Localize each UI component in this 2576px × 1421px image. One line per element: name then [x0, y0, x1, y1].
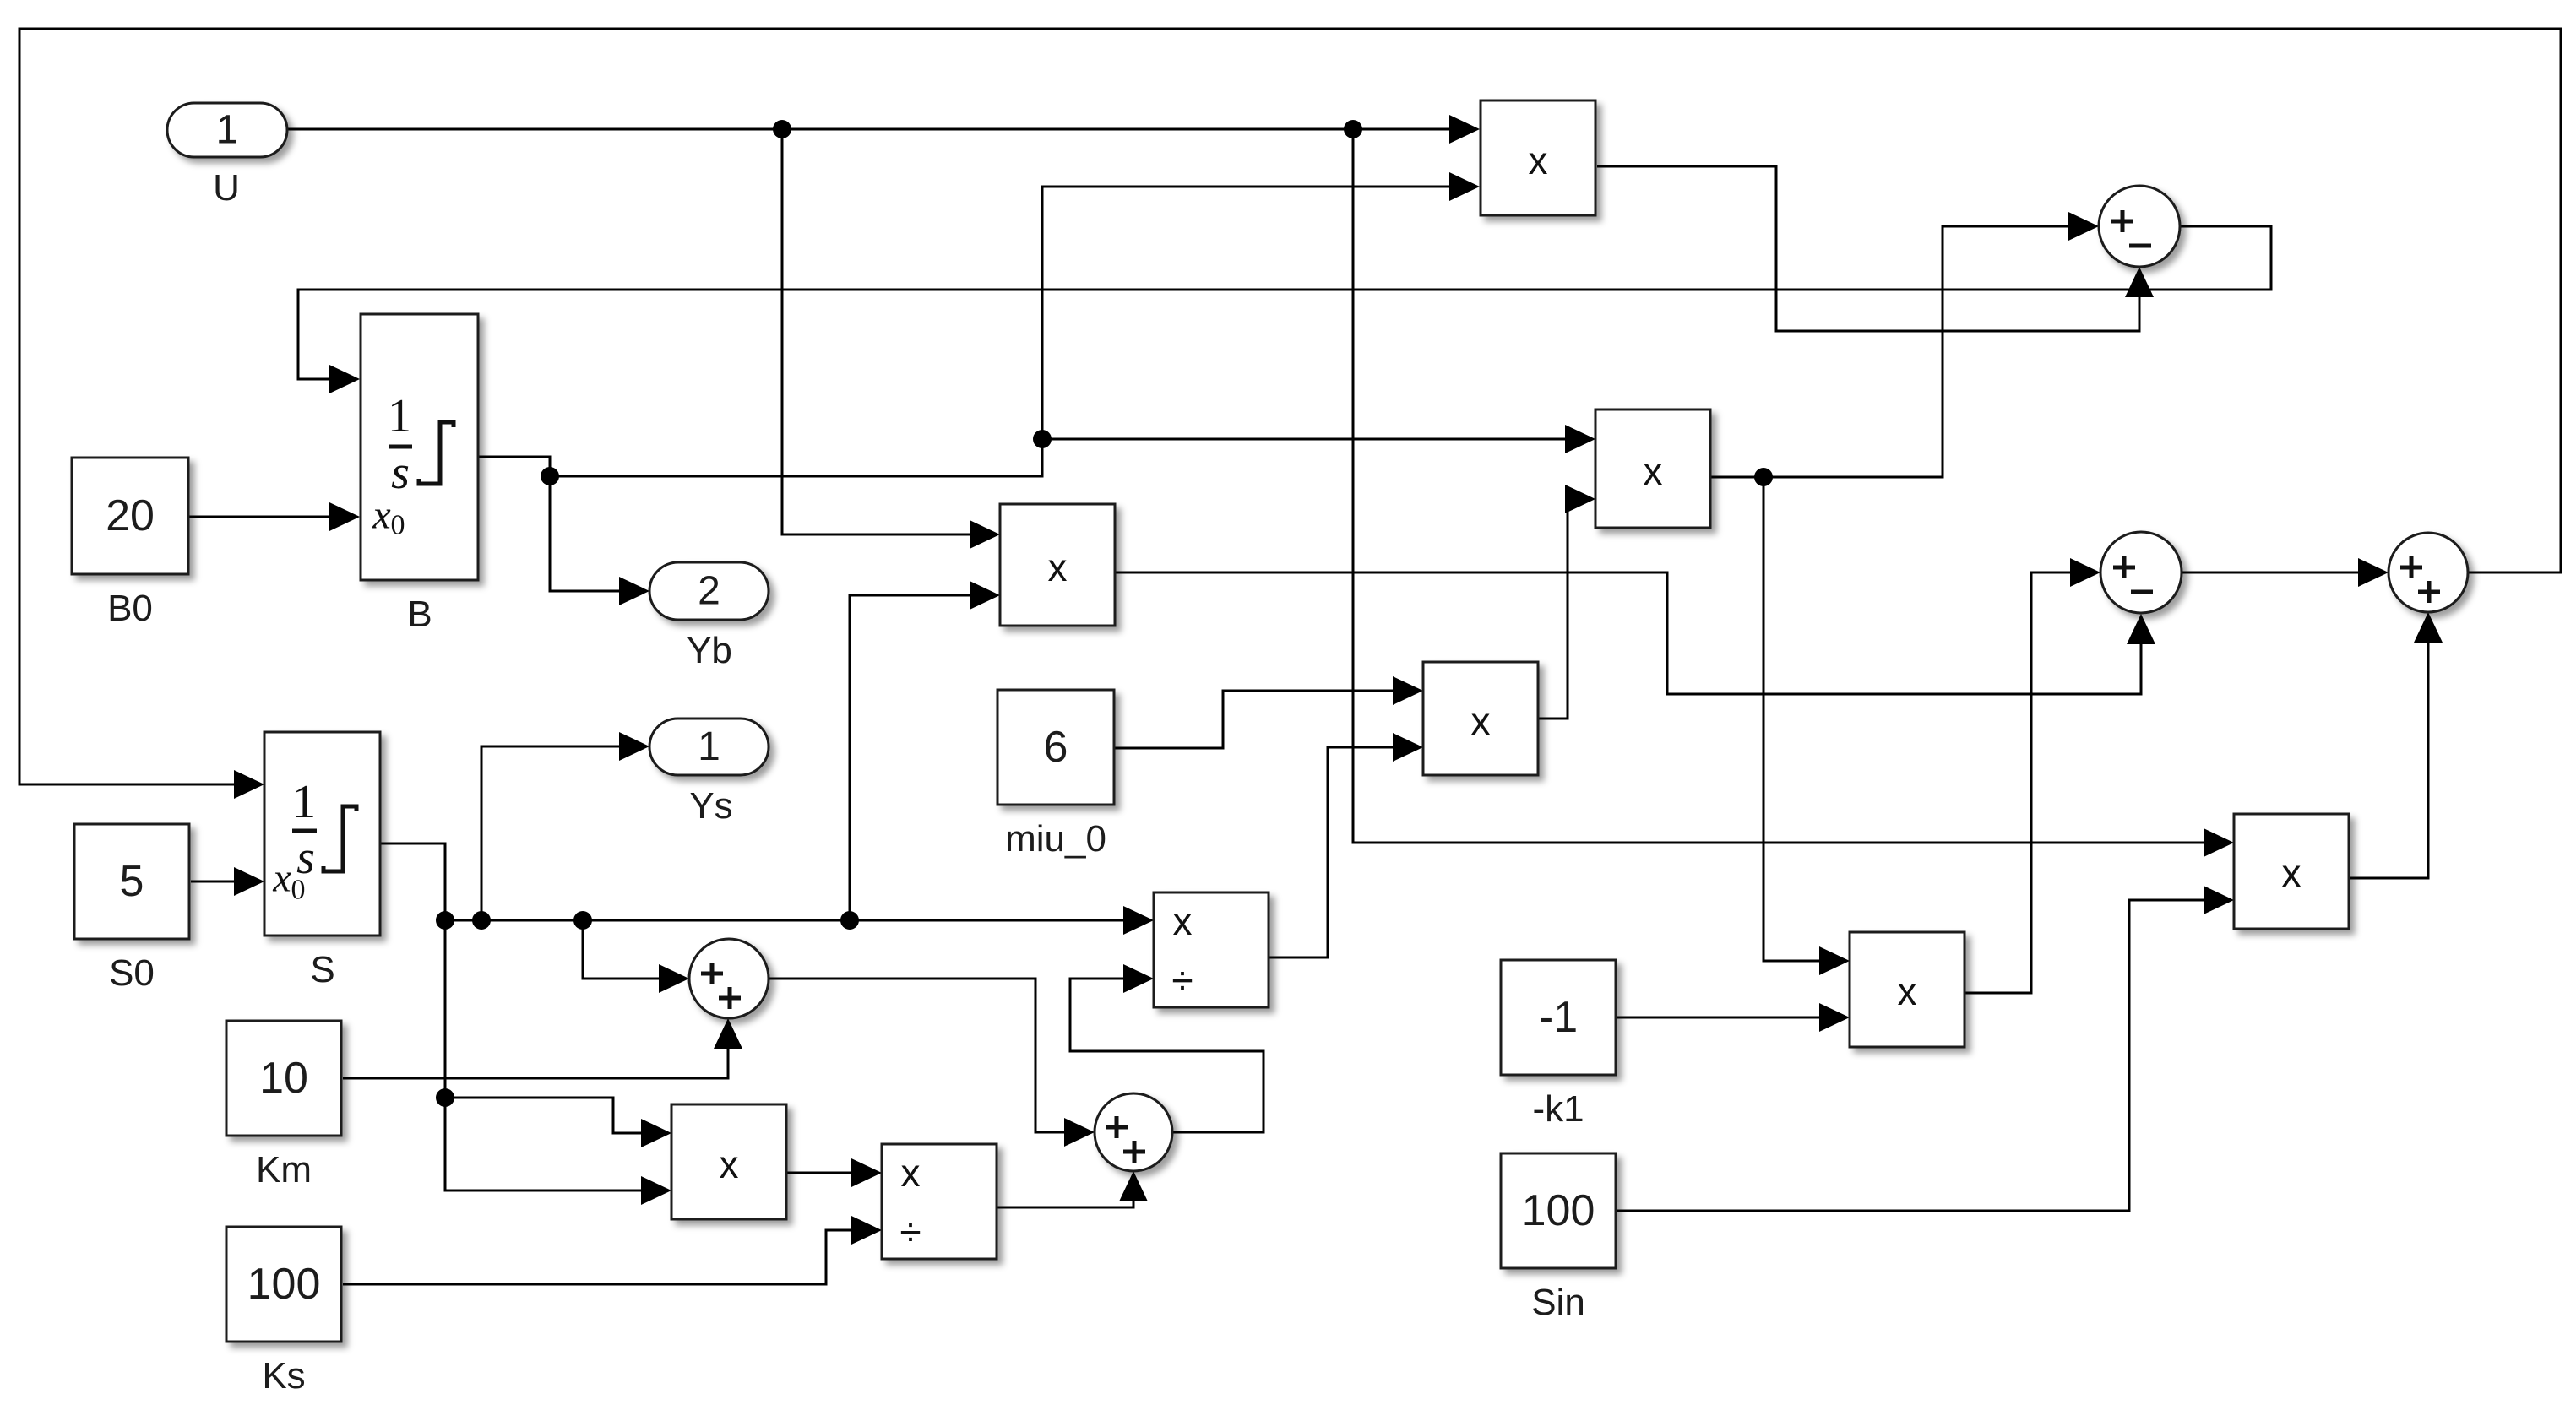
constant Sin	[1501, 1153, 1616, 1268]
svg-text:x: x	[1644, 449, 1663, 493]
constant miu_0	[997, 690, 1114, 805]
wire B output branch down to Yb outport	[550, 476, 619, 591]
arrowhead into S3 bottom plus input	[2414, 612, 2443, 643]
svg-text:S: S	[310, 949, 334, 990]
outport Yb	[649, 562, 769, 620]
svg-text:B: B	[407, 594, 432, 635]
svg-text:6: 6	[1044, 723, 1068, 772]
wire S0 output to S integrator x0 input	[191, 881, 243, 883]
svg-text:5: 5	[120, 857, 144, 906]
svg-text:1: 1	[388, 390, 411, 442]
node U branch to P7	[1344, 120, 1362, 138]
node S trunk branch to P5 top	[436, 1088, 454, 1107]
product P1	[1481, 100, 1595, 215]
wire PD1 output to P4 bottom input	[1269, 747, 1393, 957]
outport Ys	[649, 719, 769, 775]
wire B integrator output	[478, 187, 1449, 476]
svg-text:0: 0	[391, 510, 405, 541]
wire P5 output to PD2 x input	[786, 1172, 851, 1174]
wire main S line to PD1 x input	[445, 919, 1123, 922]
wire big feedback loop S3 output to S integrator input 1	[19, 29, 2561, 784]
wire Km output to S4 bottom input	[343, 1049, 728, 1078]
svg-text:10: 10	[259, 1054, 308, 1103]
sum S3 plus-plus	[2389, 533, 2468, 612]
arrowhead into P6 bottom input	[1819, 1003, 1850, 1032]
arrowhead into P7 top input	[2204, 828, 2234, 857]
svg-text:x: x	[720, 1142, 739, 1186]
product-divide PD1	[1154, 892, 1269, 1007]
svg-text:1: 1	[292, 776, 316, 828]
wire P6 output to S2 left input	[1965, 572, 2070, 993]
wire P1 output to S1 minus input	[1597, 166, 2139, 331]
svg-text:100: 100	[247, 1260, 321, 1309]
svg-text:Ys: Ys	[689, 785, 732, 827]
arrowhead into S4 bottom plus input	[714, 1018, 742, 1049]
sum S4 plus-plus	[689, 939, 769, 1018]
arrowhead into S3 left plus input	[2358, 558, 2389, 587]
arrowhead into P5 bottom input	[641, 1176, 671, 1205]
svg-text:100: 100	[1522, 1186, 1595, 1235]
arrowhead into P1 top input	[1449, 115, 1480, 144]
arrowhead into P2 bottom input	[1565, 485, 1595, 513]
wire -k1 output to P6 bottom input	[1616, 1017, 1819, 1019]
node S output junction to main S line	[436, 911, 454, 930]
svg-text:x: x	[2282, 851, 2302, 895]
svg-text:1: 1	[698, 724, 720, 769]
arrowhead into P6 top input	[1819, 946, 1850, 975]
wire S4 output to S5 left input	[769, 979, 1064, 1132]
wire P4 output to P2 bottom input	[1538, 499, 1568, 719]
svg-text:Yb: Yb	[687, 630, 732, 671]
svg-text:S0: S0	[109, 952, 155, 994]
wire P2 output branch down to P6 top input	[1764, 477, 1819, 961]
arrowhead into Yb outport	[619, 577, 649, 605]
svg-text:20: 20	[106, 491, 155, 540]
svg-text:÷: ÷	[899, 1210, 921, 1254]
integrator S	[264, 732, 380, 936]
svg-text:x: x	[1529, 138, 1548, 182]
arrowhead into P1 bottom input	[1449, 172, 1480, 201]
constant Km	[226, 1021, 341, 1136]
sum S1 plus-minus	[2099, 186, 2180, 267]
arrowhead into S5 bottom plus input	[1119, 1171, 1148, 1201]
wire P2 output	[1710, 226, 2068, 477]
wire miu_0 output to P4 top input	[1114, 691, 1393, 748]
svg-text:÷: ÷	[1171, 958, 1193, 1002]
arrowhead into S1 bottom minus input	[2125, 267, 2154, 297]
wire PD2 output to S5 bottom input	[997, 1196, 1133, 1207]
node S line branch to P3	[840, 911, 859, 930]
wire P3 output to S2 minus input	[1115, 572, 2141, 694]
wire S branch down to S4 left input	[583, 920, 659, 979]
arrowhead into P2 top input	[1565, 425, 1595, 453]
product P2	[1595, 409, 1710, 528]
arrowhead into PD1 x input	[1123, 906, 1154, 935]
arrowhead into P4 bottom input	[1393, 733, 1423, 762]
svg-text:x: x	[1898, 969, 1917, 1013]
product P5	[671, 1104, 786, 1219]
arrowhead into P3 top input	[970, 520, 1000, 549]
constant B0	[72, 458, 188, 574]
svg-text:x: x	[1173, 899, 1193, 943]
wire B branch to P2 top input	[1042, 438, 1565, 441]
wire U branch down to P3 top input	[782, 129, 970, 534]
sum S2 plus-minus	[2100, 532, 2182, 613]
arrowhead into B integrator x0 input	[329, 502, 360, 531]
wire Ks output to PD2 divide input	[343, 1230, 851, 1284]
node B output junction	[541, 467, 559, 485]
wire S branch to P5 top input	[445, 1098, 641, 1133]
svg-text:miu_0: miu_0	[1005, 818, 1106, 860]
arrowhead into P3 bottom input	[970, 581, 1000, 610]
wire S1 output feedback to B integrator input 1	[298, 226, 2271, 379]
svg-text:x: x	[372, 493, 390, 538]
svg-text:0: 0	[291, 875, 306, 906]
product-divide PD2	[882, 1144, 997, 1259]
product P3	[1000, 504, 1115, 626]
arrowhead into P5 top input	[641, 1119, 671, 1147]
arrowhead into S2 left plus input	[2070, 558, 2100, 587]
node B riser branch to P2	[1033, 430, 1052, 448]
product P6	[1850, 932, 1965, 1047]
wire S branch up to P3 bottom input	[850, 595, 970, 920]
wire S2 output to S3 left input	[2182, 572, 2358, 574]
arrowhead into PD2 x input	[851, 1158, 882, 1187]
inport U	[167, 103, 287, 157]
svg-text:x: x	[1471, 699, 1491, 743]
arrowhead into S1 left plus input	[2068, 212, 2099, 241]
svg-text:U: U	[213, 167, 240, 209]
product P4	[1423, 662, 1538, 775]
svg-text:x: x	[272, 856, 291, 901]
wire P7 output to S3 bottom input	[2349, 637, 2428, 878]
node S line branch to S4	[573, 911, 592, 930]
svg-text:2: 2	[698, 569, 720, 614]
wire S5 output to PD1 divide input	[1070, 979, 1264, 1132]
arrowhead into B integrator input 1	[329, 365, 360, 393]
arrowhead into P7 bottom input	[2204, 886, 2234, 914]
arrowhead into S2 bottom minus input	[2127, 614, 2155, 644]
wire U branch down to P7 top input	[1353, 129, 2204, 843]
wire S integrator output trunk	[380, 843, 641, 1190]
constant -k1	[1501, 960, 1616, 1075]
wire Sin output to P7 bottom input	[1616, 900, 2204, 1211]
wire B0 output to B integrator x0 input	[189, 516, 329, 518]
wire U inport output line to P1 top input	[287, 128, 1449, 131]
arrowhead into P4 top input	[1393, 676, 1423, 705]
integrator B	[361, 314, 478, 580]
svg-text:-k1: -k1	[1532, 1088, 1584, 1130]
arrowhead into PD1 divide input	[1123, 964, 1154, 993]
sum S5 plus-plus	[1095, 1093, 1172, 1171]
constant S0	[74, 824, 189, 939]
constant Ks	[226, 1227, 341, 1342]
svg-text:B0: B0	[107, 588, 153, 629]
svg-text:x: x	[901, 1151, 921, 1195]
svg-text:1: 1	[216, 108, 239, 153]
arrowhead into S4 left plus input	[659, 964, 689, 993]
svg-text:Km: Km	[256, 1149, 312, 1190]
arrowhead into S5 left plus input	[1064, 1118, 1095, 1147]
svg-text:Sin: Sin	[1531, 1282, 1585, 1323]
wire S branch up to Ys outport	[481, 746, 619, 920]
arrowhead into S integrator input 1	[234, 770, 264, 799]
svg-text:x: x	[1048, 545, 1068, 589]
node P2 output junction	[1754, 468, 1773, 486]
svg-text:s: s	[391, 447, 410, 499]
arrowhead into PD2 divide input	[851, 1216, 882, 1245]
arrowhead into S integrator x0 input	[234, 867, 264, 896]
node U branch to P3	[773, 120, 791, 138]
node S line branch to Ys	[472, 911, 491, 930]
svg-text:-1: -1	[1539, 993, 1578, 1042]
svg-text:Ks: Ks	[262, 1355, 305, 1397]
arrowhead into Ys outport	[619, 732, 649, 761]
product P7	[2234, 814, 2349, 929]
